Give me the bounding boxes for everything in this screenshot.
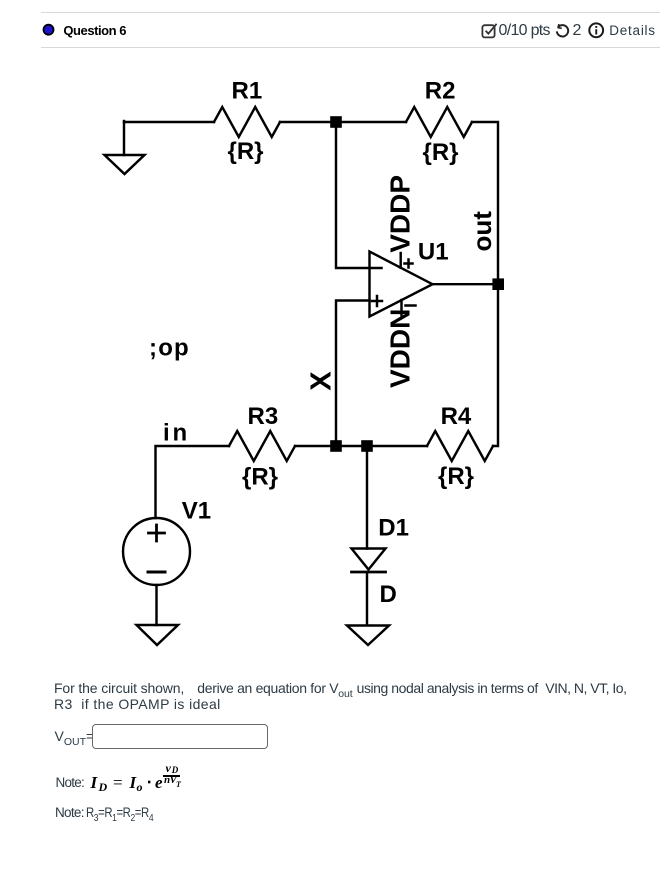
op-amp vddn minus mark [406,304,416,307]
svg-text:R1: R1 [232,78,263,105]
V1 plus mark [149,525,165,541]
svg-text:{R}: {R} [242,464,278,491]
attempts count [573,22,582,40]
diode D1 [352,549,386,570]
svg-text:X: X [306,371,338,391]
wire V1 to ground [155,585,157,625]
ground (left of R1) [105,155,145,174]
header bottom rule [41,47,660,48]
note 2: resistor equality [55,804,169,824]
junction node R1/R2 [330,116,342,128]
junction node out [492,278,504,290]
svg-text:{R}: {R} [438,463,474,490]
wire R2 right lead down to out node [472,122,498,284]
header top rule [41,12,660,13]
wire R1 to junction to R2 [280,121,406,123]
wire minus-input riser from top junction [336,122,370,268]
op-amp U1 triangle [370,252,433,317]
wire R1 left lead [124,121,214,123]
op-amp inverting input mark [372,267,382,270]
question title [63,23,126,38]
ground (V1) [137,625,179,645]
svg-text:R2: R2 [425,78,456,105]
op-amp output wire [433,283,499,285]
question status dot [41,22,57,38]
op-amp top power pin [399,253,401,268]
question prompt paragraph line 2 [54,696,221,712]
junction node X [330,440,342,452]
wire D1 branch down [366,446,368,549]
svg-text:{R}: {R} [228,138,264,165]
wire R4 left lead [336,445,427,447]
voltage source V1 circle [123,518,190,585]
resistor R3 [229,431,295,461]
svg-text:;op: ;op [149,335,190,362]
V1 minus mark [148,571,165,574]
op-amp vddp plus mark [405,260,413,268]
op-amp bottom power pin [400,300,402,316]
svg-text:V1: V1 [182,498,211,525]
note 1: diode equation [56,775,85,790]
wire R3 right lead [295,445,336,447]
svg-text:out: out [467,211,497,252]
answer input box [92,724,269,749]
resistor R2 [406,107,472,137]
details label [609,23,656,38]
question prompt paragraph line 1 [54,680,184,696]
info icon [588,22,605,39]
svg-text:R3: R3 [248,403,279,430]
wire in lead [156,446,230,518]
svg-text:U1: U1 [418,239,449,266]
svg-text:D: D [380,581,397,608]
resistor R1 [214,107,280,137]
score text [499,22,550,40]
wire ground stem left [123,121,125,155]
op-amp non-inverting input mark [372,296,382,306]
svg-text:VDDN: VDDN [385,309,416,388]
Vout answer label [55,728,95,748]
wire out node down to R4 [493,284,498,446]
ground (D1) [347,626,389,646]
junction node D1 [361,440,373,452]
wire diode to ground [366,572,368,625]
svg-text:in: in [163,420,190,447]
diode D1 cathode bar [352,571,386,574]
checkbox score icon [481,22,499,39]
svg-text:VDDP: VDDP [385,175,416,253]
undo/attempts icon [555,24,570,39]
svg-text:R4: R4 [441,403,472,430]
svg-text:D1: D1 [378,515,409,542]
wire X net riser [336,301,370,447]
svg-text:{R}: {R} [423,139,459,166]
resistor R4 [427,431,493,461]
